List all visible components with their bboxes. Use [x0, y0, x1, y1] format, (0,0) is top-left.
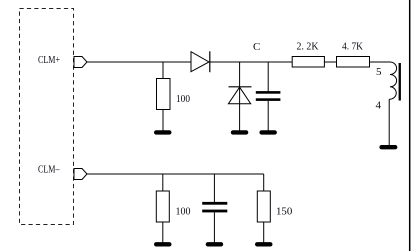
wire zener stem top — [239, 62, 241, 87]
wire zener stem bottom — [239, 87, 241, 130]
resistor R3 4.7K — [337, 57, 370, 68]
svg-text:4: 4 — [376, 100, 382, 112]
capacitor C2 — [202, 202, 227, 213]
ground under R1 — [154, 130, 172, 134]
sheet border line — [409, 0, 411, 251]
capacitor C1 — [256, 91, 281, 101]
wire CLM+ to diode — [87, 61, 191, 63]
port pin CLM- — [74, 169, 87, 180]
wire CLM- bus — [87, 173, 264, 175]
svg-text:100: 100 — [176, 205, 191, 217]
ground under zener — [231, 130, 249, 134]
wire R5 stem bottom — [263, 222, 265, 243]
svg-text:CLM–: CLM– — [38, 164, 60, 176]
wire capacitor C2 stem top — [213, 174, 215, 202]
svg-text:150: 150 — [276, 205, 293, 217]
wire R3 to coil — [370, 61, 391, 63]
ground under R4 — [154, 242, 172, 246]
zener diode D2 — [228, 87, 251, 104]
resistor R2 2.2K — [292, 57, 324, 68]
wire capacitor C2 stem bottom — [213, 212, 215, 242]
wire capacitor C1 stem top — [267, 62, 269, 92]
ground under C2 — [206, 242, 224, 246]
inductor coil T1 winding — [389, 62, 396, 99]
wire coil to ground — [388, 99, 390, 145]
wire between R2 and R3 — [324, 61, 336, 63]
wire capacitor C1 stem bottom — [267, 101, 269, 131]
svg-text:2. 2K: 2. 2K — [297, 41, 319, 53]
ground under coil — [379, 145, 397, 149]
ground under C1 — [259, 130, 277, 134]
wire R5 stem top — [263, 174, 265, 191]
diode D1 — [191, 51, 210, 72]
wire diode to resistor 2.2K — [210, 61, 292, 63]
resistor R1 100 — [157, 79, 171, 110]
svg-text:5: 5 — [376, 66, 382, 78]
port pin CLM+ — [74, 57, 87, 68]
svg-text:4. 7K: 4. 7K — [342, 41, 363, 53]
wire R1 stem bottom — [162, 110, 164, 131]
transformer core bar — [399, 63, 401, 101]
connector J1 dashed outline — [20, 9, 74, 225]
svg-text:CLM+: CLM+ — [38, 54, 60, 66]
resistor R5 150 — [257, 191, 270, 222]
wire R1 stem top — [162, 62, 164, 79]
ground under R5 — [255, 242, 273, 246]
resistor R4 100 — [156, 191, 169, 222]
wire R4 stem top — [162, 174, 164, 191]
svg-text:100: 100 — [176, 93, 190, 105]
wire R4 stem bottom — [162, 222, 164, 243]
svg-text:C: C — [253, 41, 260, 53]
